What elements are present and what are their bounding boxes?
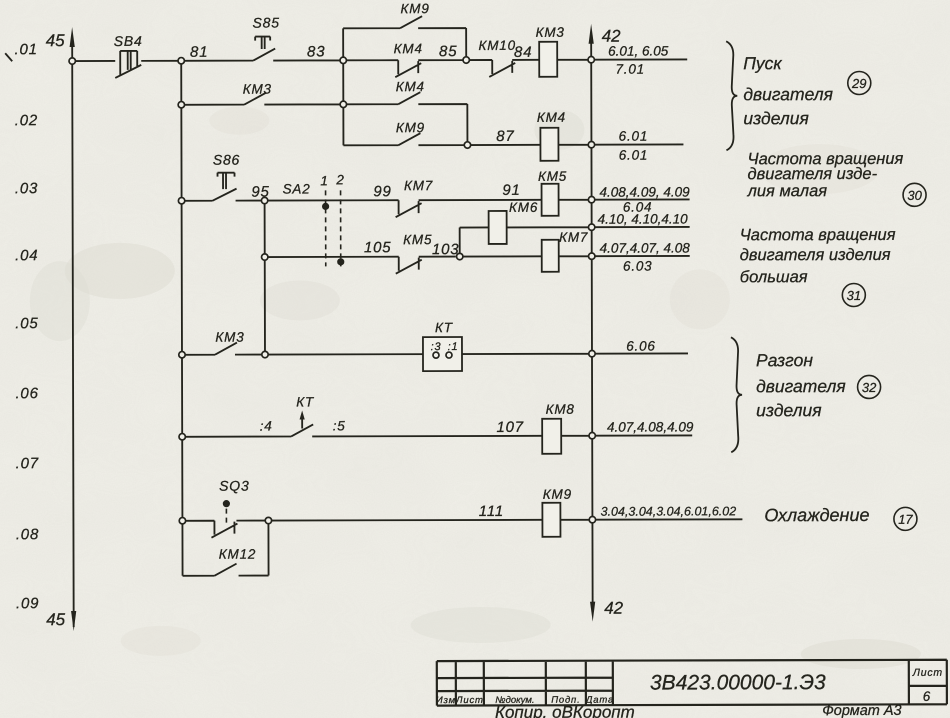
svg-text:Охлаждение: Охлаждение — [764, 505, 869, 525]
svg-text:Разгон: Разгон — [756, 350, 813, 370]
svg-text:двигателя изделия: двигателя изделия — [740, 246, 891, 264]
svg-text:.08: .08 — [16, 526, 39, 543]
svg-text:3В423.00000-1.Э3: 3В423.00000-1.Э3 — [650, 671, 826, 694]
svg-text:84: 84 — [514, 44, 532, 61]
svg-text::1: :1 — [448, 341, 459, 353]
svg-text:103: 103 — [432, 241, 459, 258]
svg-text:6: 6 — [923, 689, 931, 704]
svg-text:85: 85 — [439, 43, 457, 60]
svg-text:83: 83 — [307, 43, 325, 60]
svg-text:95: 95 — [251, 184, 269, 201]
svg-text:КМ9: КМ9 — [401, 1, 430, 16]
svg-text:КТ: КТ — [296, 394, 315, 409]
svg-text:S86: S86 — [213, 152, 240, 168]
svg-text:.02: .02 — [15, 112, 38, 129]
svg-text:87: 87 — [496, 128, 514, 145]
svg-text::5: :5 — [333, 418, 346, 433]
svg-text:КМ7: КМ7 — [404, 178, 433, 193]
svg-text:6.03: 6.03 — [623, 259, 653, 274]
svg-text:КМ10: КМ10 — [478, 38, 515, 53]
svg-text:двигателя изде-: двигателя изде- — [747, 165, 877, 183]
svg-text:КМ5: КМ5 — [403, 232, 432, 247]
svg-text:.01: .01 — [15, 41, 38, 58]
svg-text:32: 32 — [862, 380, 877, 395]
svg-text:S85: S85 — [252, 15, 279, 31]
svg-text:29: 29 — [851, 76, 867, 91]
svg-text:SB4: SB4 — [114, 33, 143, 49]
svg-text:.05: .05 — [15, 315, 38, 332]
svg-text:3.04,3.04,3.04,6.01,6.02: 3.04,3.04,3.04,6.01,6.02 — [601, 504, 737, 518]
svg-text:.03: .03 — [15, 180, 38, 197]
svg-text:6.01: 6.01 — [619, 148, 649, 163]
svg-text:4.07,4.07, 4.08: 4.07,4.07, 4.08 — [600, 240, 691, 255]
svg-text:81: 81 — [190, 44, 208, 61]
svg-text:SA2: SA2 — [283, 181, 311, 196]
svg-text:двигателя: двигателя — [756, 376, 846, 396]
svg-text:6.06: 6.06 — [626, 339, 656, 354]
svg-text:4.08,4.09, 4.09: 4.08,4.09, 4.09 — [600, 184, 691, 199]
svg-text:КМ9: КМ9 — [396, 120, 425, 135]
svg-text:КМ8: КМ8 — [546, 402, 575, 417]
svg-text:99: 99 — [373, 183, 391, 200]
svg-text:31: 31 — [847, 288, 862, 303]
svg-text:изделия: изделия — [743, 108, 809, 128]
svg-text:91: 91 — [502, 182, 520, 199]
svg-text:КМ3: КМ3 — [215, 330, 244, 345]
svg-text:КМ4: КМ4 — [394, 41, 423, 56]
svg-text:4.07,4.08,4.09: 4.07,4.08,4.09 — [607, 419, 694, 434]
svg-text:.07: .07 — [16, 455, 39, 472]
svg-text:SQ3: SQ3 — [219, 478, 249, 494]
svg-text:.09: .09 — [16, 595, 39, 612]
svg-text:Лист: Лист — [455, 695, 484, 706]
svg-text:1: 1 — [320, 173, 328, 188]
svg-text::3: :3 — [431, 341, 442, 353]
svg-text:КТ: КТ — [435, 320, 454, 335]
svg-text:.06: .06 — [15, 385, 38, 402]
svg-text:2: 2 — [335, 172, 344, 187]
svg-text:двигателя: двигателя — [743, 84, 833, 104]
svg-text:Пуск: Пуск — [743, 53, 782, 73]
svg-text:КМ9: КМ9 — [543, 487, 572, 502]
svg-text:111: 111 — [479, 503, 504, 520]
svg-text::4: :4 — [260, 419, 273, 434]
svg-text:КМ3: КМ3 — [243, 82, 272, 97]
svg-text:КМ4: КМ4 — [396, 79, 425, 94]
svg-text:45: 45 — [46, 610, 66, 629]
svg-text:КМ12: КМ12 — [219, 547, 256, 562]
svg-text:4.10, 4.10,4.10: 4.10, 4.10,4.10 — [598, 211, 689, 226]
svg-text:6.01: 6.01 — [619, 129, 649, 144]
svg-text:большая: большая — [740, 268, 808, 286]
svg-text:7.01: 7.01 — [615, 62, 645, 77]
svg-text:КМ4: КМ4 — [537, 110, 566, 125]
svg-text:45: 45 — [46, 31, 66, 50]
svg-text:КМ6: КМ6 — [509, 200, 538, 215]
svg-text:КМ3: КМ3 — [536, 25, 565, 40]
svg-text:Частота вращения: Частота вращения — [740, 226, 896, 244]
svg-text:6.01, 6.05: 6.01, 6.05 — [608, 43, 669, 58]
svg-text:КМ7: КМ7 — [559, 230, 588, 245]
svg-text:107: 107 — [496, 419, 523, 436]
svg-text:лия малая: лия малая — [747, 182, 828, 200]
svg-text:Лист: Лист — [912, 667, 943, 679]
svg-text:105: 105 — [364, 239, 391, 256]
svg-text:30: 30 — [907, 188, 922, 203]
svg-text:изделия: изделия — [756, 400, 822, 420]
svg-text:Формат А3: Формат А3 — [822, 703, 901, 718]
svg-text:Изм: Изм — [436, 695, 456, 706]
svg-text:Копир. оВКоропт: Копир. оВКоропт — [495, 703, 635, 718]
svg-text:17: 17 — [898, 512, 913, 527]
svg-text:.04: .04 — [15, 247, 38, 264]
svg-text:КМ5: КМ5 — [538, 169, 567, 184]
svg-text:42: 42 — [604, 599, 624, 618]
